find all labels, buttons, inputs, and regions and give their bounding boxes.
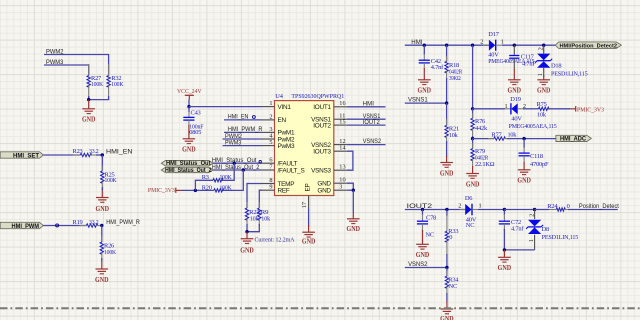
svg-text:2: 2 [480,38,483,45]
svg-text:D6: D6 [465,195,472,202]
svg-text:15: 15 [339,119,345,126]
svg-text:1: 1 [479,202,482,209]
svg-text:IOUT3: IOUT3 [313,149,331,156]
svg-text:R77: R77 [491,132,502,139]
svg-text:9: 9 [269,184,272,191]
svg-text:GND: GND [517,178,531,185]
svg-text:33.2: 33.2 [89,219,99,226]
svg-text:10: 10 [339,177,345,184]
svg-text:GND: GND [317,188,331,195]
svg-text:GND: GND [95,277,109,284]
svg-text:4.7nF: 4.7nF [522,60,536,67]
svg-text:GND: GND [466,181,480,188]
svg-text:2: 2 [269,113,272,120]
svg-text:VSNS1: VSNS1 [408,97,428,104]
svg-text:VSNS3: VSNS3 [311,168,331,175]
svg-text:HMI_Status_Out_2: HMI_Status_Out_2 [212,164,260,171]
svg-text:GND: GND [302,238,316,245]
svg-text:R3: R3 [202,174,209,181]
svg-text:R19: R19 [73,219,83,226]
svg-text:VCC_24V: VCC_24V [177,88,202,95]
svg-text:HMI: HMI [411,39,422,46]
svg-text:R23: R23 [73,148,83,155]
svg-text:HMI_PWM_R: HMI_PWM_R [228,126,263,133]
svg-text:PMIC_3V3: PMIC_3V3 [148,187,175,194]
svg-text:100K: 100K [104,249,117,256]
svg-text:2: 2 [538,47,545,50]
svg-text:IOUT2: IOUT2 [313,122,331,129]
svg-text:GND: GND [182,146,196,153]
svg-text:4700pF: 4700pF [530,161,549,168]
svg-text:EP: EP [305,183,312,191]
svg-text:1: 1 [501,38,504,45]
svg-text:GND: GND [96,206,110,213]
svg-text:HMI_PWM_R: HMI_PWM_R [106,219,140,226]
svg-text:PESD1LIN,115: PESD1LIN,115 [551,70,588,77]
svg-text:HMI_EN: HMI_EN [106,149,133,156]
svg-text:0805: 0805 [189,129,201,136]
svg-text:1: 1 [269,100,272,107]
svg-text:10k: 10k [508,132,518,139]
svg-text:PwM3: PwM3 [278,143,295,150]
svg-text:2: 2 [528,214,535,217]
svg-text:GND: GND [347,226,361,233]
svg-text:39KΩ: 39KΩ [449,75,461,82]
svg-text:HMI_PWM: HMI_PWM [12,223,40,230]
svg-text:4.7nf: 4.7nf [511,226,524,233]
svg-text:VIN1: VIN1 [278,104,292,111]
svg-text:VSNS2: VSNS2 [363,138,382,145]
svg-text:NC: NC [466,222,474,229]
svg-text:10k: 10k [250,216,260,223]
svg-text:EN: EN [278,117,287,124]
svg-text:GND: GND [537,87,551,94]
svg-text:IOUT2: IOUT2 [363,119,380,126]
svg-text:16: 16 [339,100,345,107]
svg-text:HMI_Status_Out_2: HMI_Status_Out_2 [165,168,212,174]
svg-text:D18: D18 [551,63,561,70]
svg-text:1: 1 [528,239,535,242]
svg-text:R75: R75 [537,101,547,108]
svg-text:22.1KΩ: 22.1KΩ [475,161,495,168]
svg-text:Current: 12.2mA: Current: 12.2mA [255,237,295,244]
svg-text:GND: GND [440,316,454,320]
svg-text:PWM3: PWM3 [46,59,64,66]
svg-text:HMI_SET: HMI_SET [13,152,39,159]
svg-text:HMI_Status_Out: HMI_Status_Out [166,161,211,167]
svg-text:40V: 40V [511,115,522,122]
svg-text:GND: GND [317,181,331,188]
svg-text:10k: 10k [449,132,459,139]
svg-text:C78: C78 [426,214,436,221]
svg-text:10k: 10k [261,216,271,223]
svg-text:/FAULT_S: /FAULT_S [278,167,305,174]
svg-text:REF: REF [278,188,290,195]
svg-text:GND: GND [240,248,254,255]
svg-text:IOUT1: IOUT1 [313,104,331,111]
svg-text:GND: GND [498,265,512,272]
svg-text:GND: GND [418,87,432,94]
svg-text:PWM2: PWM2 [46,48,64,55]
svg-text:Position_Detect: Position_Detect [579,203,619,210]
svg-text:100K: 100K [105,177,118,184]
svg-text:4.7nf: 4.7nf [431,64,444,71]
svg-text:HMI: HMI [363,100,374,107]
svg-text:HMI_EN: HMI_EN [228,114,249,121]
svg-text:17: 17 [301,202,308,208]
svg-text:R20: R20 [202,184,212,191]
svg-text:2: 2 [458,202,461,209]
svg-text:442k: 442k [475,125,488,132]
svg-text:100K: 100K [111,81,124,88]
svg-text:PMEG4005AEA,115: PMEG4005AEA,115 [509,123,557,130]
svg-text:7: 7 [269,163,272,170]
svg-text:GND: GND [440,171,454,178]
svg-text:HMI_ADC: HMI_ADC [560,136,586,143]
svg-text:GND: GND [508,87,522,94]
svg-text:100K: 100K [220,174,233,181]
svg-text:0: 0 [567,203,570,210]
svg-text:IOUT2: IOUT2 [407,203,433,210]
svg-text:3: 3 [339,184,342,191]
svg-text:100K: 100K [91,81,104,88]
svg-text:10k: 10k [537,112,547,119]
svg-text:PMIC_3V3: PMIC_3V3 [577,106,604,113]
svg-text:1: 1 [505,103,508,110]
svg-text:5: 5 [269,139,272,146]
svg-text:PESD1LIN,115: PESD1LIN,115 [542,234,579,241]
svg-text:NC: NC [449,283,457,290]
svg-text:C118: C118 [530,153,543,160]
svg-text:D19: D19 [510,96,520,103]
svg-text:14: 14 [339,145,346,152]
svg-text:PWM3: PWM3 [225,140,242,147]
svg-text:NC: NC [426,232,434,239]
svg-text:R24: R24 [547,203,558,210]
svg-text:33.2: 33.2 [89,148,99,155]
svg-text:100K: 100K [220,184,233,191]
svg-text:1: 1 [537,73,544,76]
svg-text:VSNS2: VSNS2 [408,261,428,268]
svg-text:13: 13 [339,164,345,171]
svg-text:U4: U4 [275,93,284,100]
svg-text:0: 0 [449,234,452,241]
svg-text:C43: C43 [191,109,201,116]
svg-text:D17: D17 [488,31,499,38]
svg-text:GND: GND [82,116,96,123]
svg-text:GND: GND [416,252,430,259]
svg-text:TPS92630QPWPRQ1: TPS92630QPWPRQ1 [291,93,344,100]
svg-text:D8: D8 [542,226,549,233]
svg-text:2: 2 [523,103,526,110]
svg-text:HMI/Position_Detect2: HMI/Position_Detect2 [560,44,618,50]
